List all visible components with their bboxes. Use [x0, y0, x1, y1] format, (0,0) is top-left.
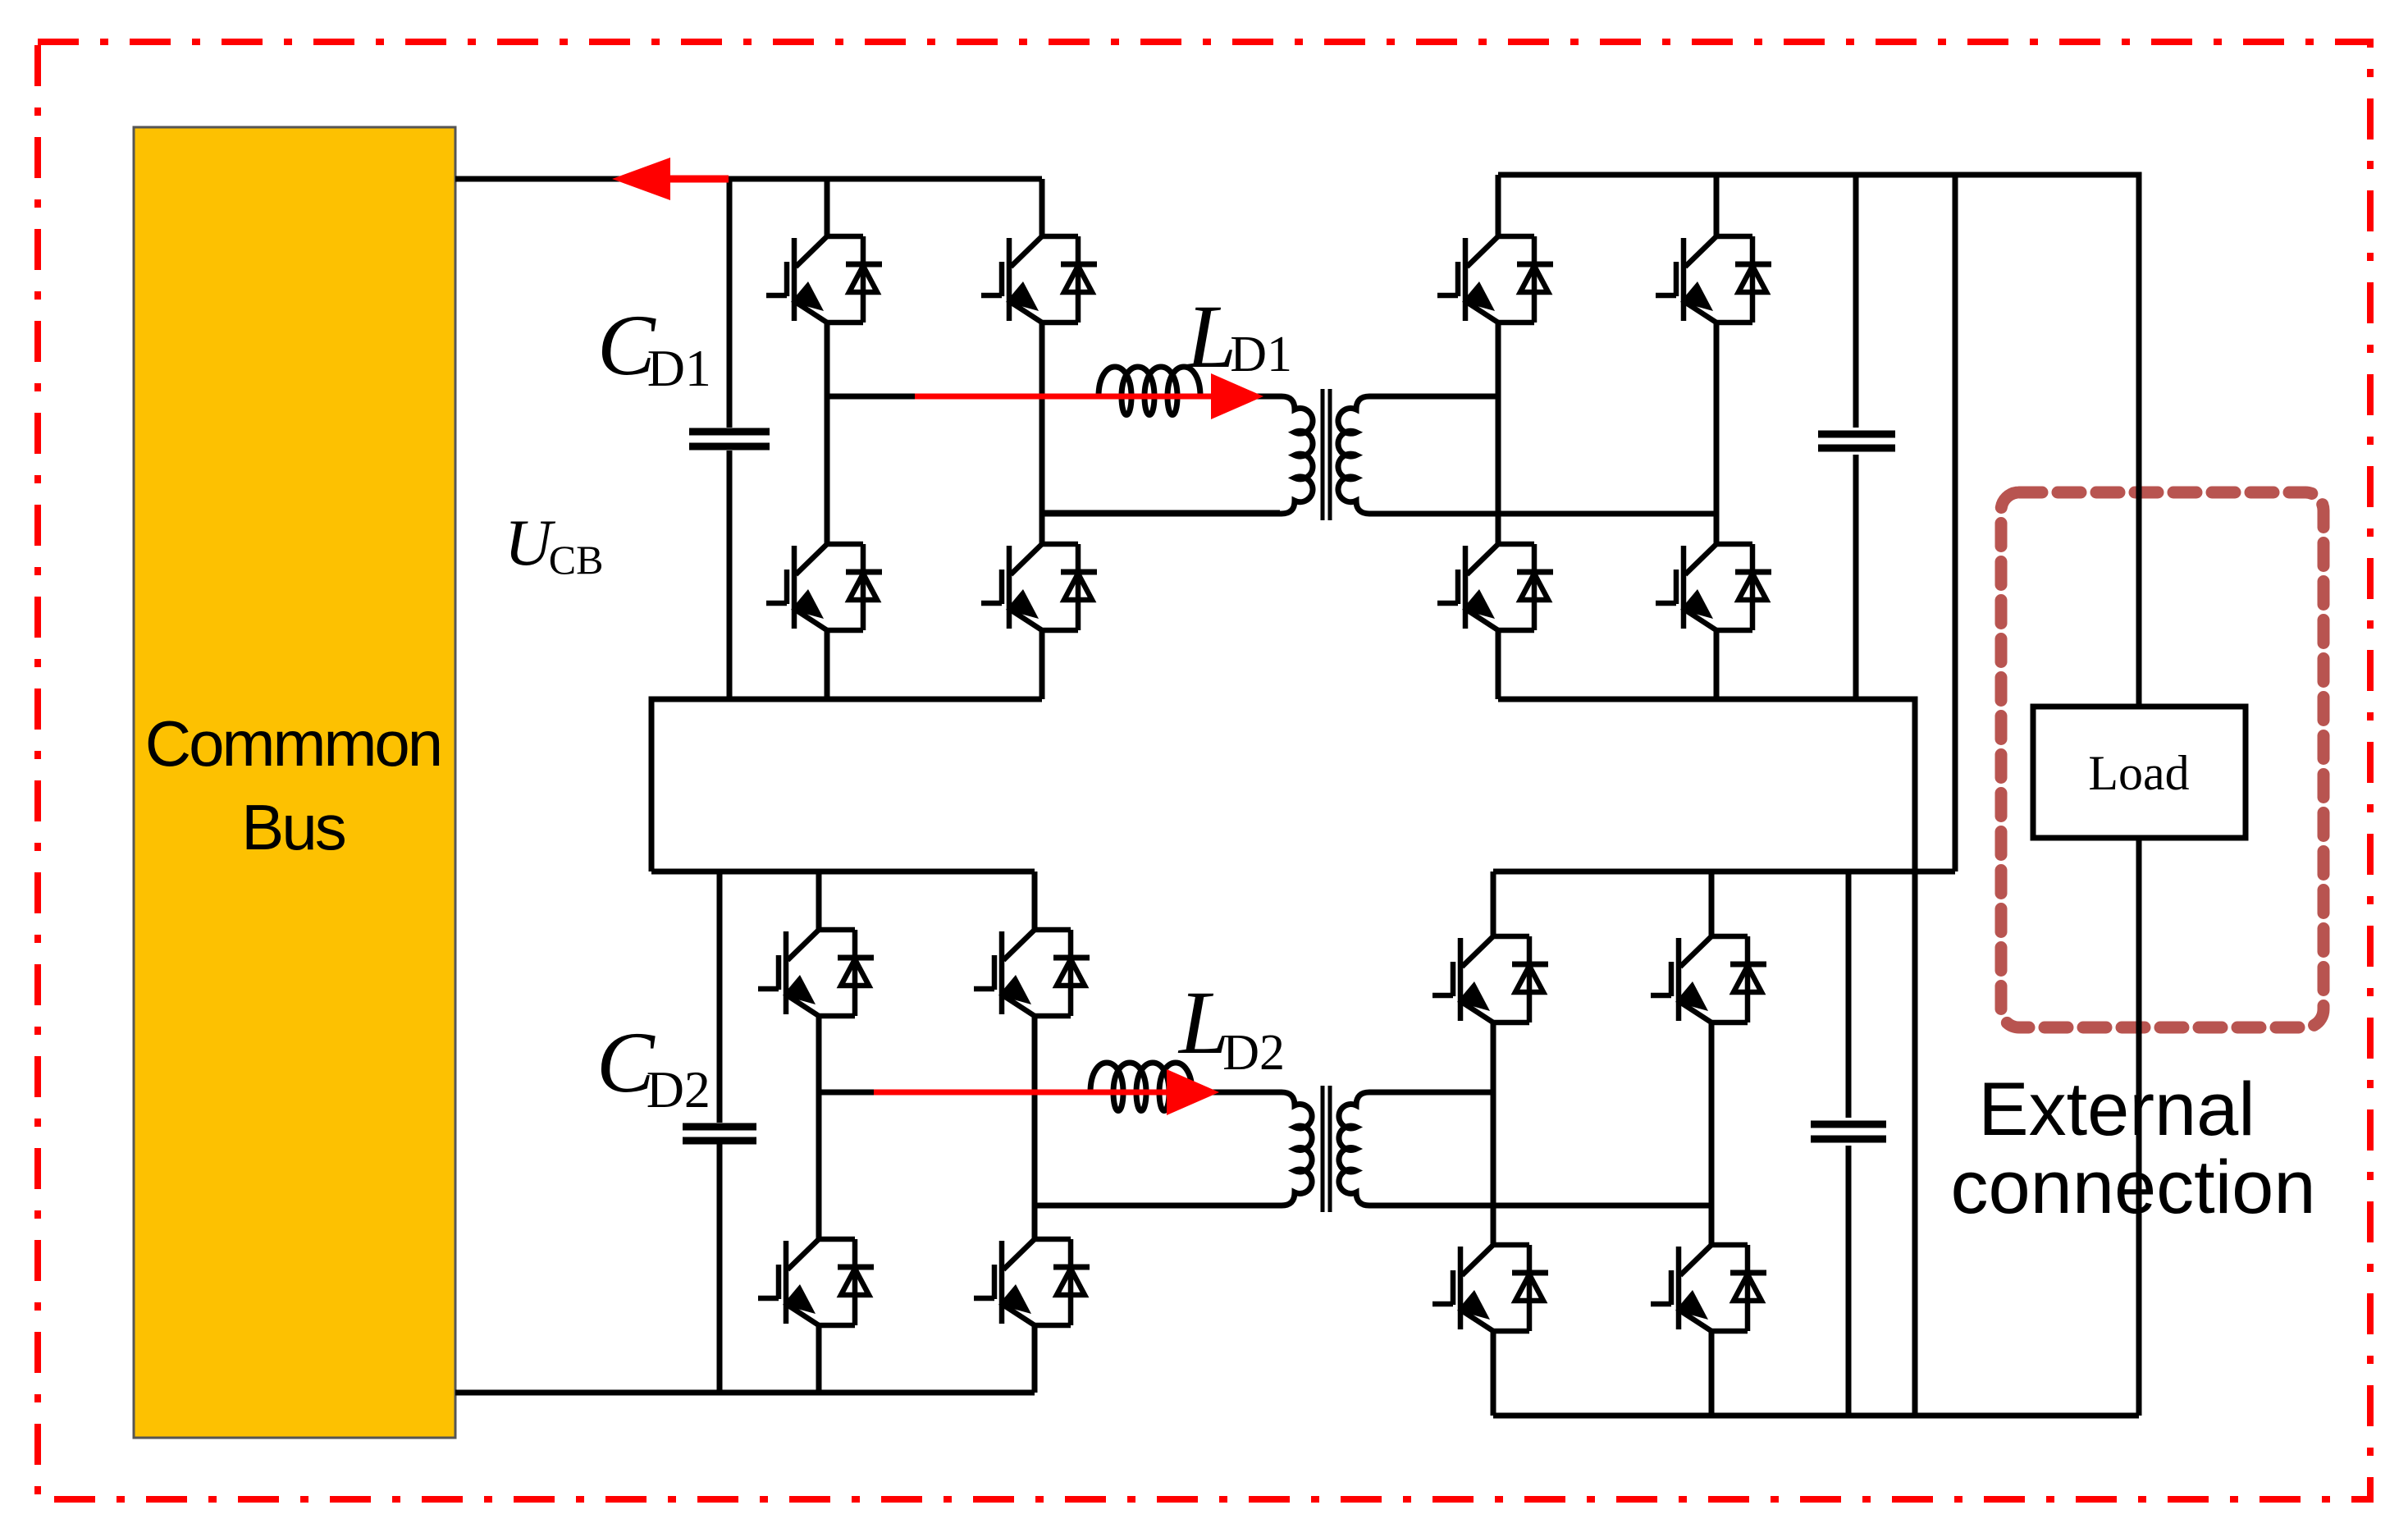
- transformer T2 secondary winding: [1339, 1092, 1711, 1205]
- IGBT S3 with antiparallel diode (DAB1 primary, bottom-left): [766, 544, 882, 630]
- wire: DAB2 primary right midpoint lead: [1035, 1203, 1280, 1209]
- wire: load top lead: [2136, 838, 2142, 1416]
- wire: capacitor CD2 branch: [717, 872, 723, 1393]
- IGBT S12 with antiparallel diode (DAB2 primary, bottom-right): [974, 1239, 1090, 1325]
- red arrow: DAB2 inductor current: [874, 1069, 1219, 1115]
- IGBT S9 with antiparallel diode (DAB2 primary, top-left): [758, 930, 874, 1016]
- wire: DAB1 primary right midpoint lead: [1042, 510, 1280, 516]
- inductor LD1: [1099, 367, 1200, 415]
- svg-text:External: External: [1978, 1068, 2255, 1151]
- Common Bus block: [134, 127, 455, 1438]
- IGBT S16 with antiparallel diode (DAB2 secondary, bottom-right): [1651, 1245, 1766, 1331]
- IGBT S7 with antiparallel diode (DAB1 secondary, bottom-left): [1437, 544, 1553, 630]
- svg-text:Load: Load: [2088, 746, 2189, 800]
- IGBT S2 with antiparallel diode (DAB1 primary, top-right): [981, 236, 1097, 323]
- svg-text:connection: connection: [1951, 1146, 2316, 1229]
- Load block: [2033, 707, 2246, 838]
- External connection dashed box: [2001, 492, 2323, 1027]
- wire: DAB1 primary top rail from Common Bus: [455, 176, 1042, 182]
- transformer T1 core: [1323, 389, 1330, 520]
- transformer T1 primary winding: [1042, 396, 1313, 514]
- capacitor CD1 plates: [689, 432, 770, 446]
- wire: DAB2 output capacitor branch: [1846, 872, 1852, 1416]
- red arrow: DAB1 inductor current: [915, 373, 1263, 419]
- svg-text:Commmon: Commmon: [145, 707, 441, 780]
- IGBT S11 with antiparallel diode (DAB2 primary, bottom-left): [758, 1239, 874, 1325]
- DAB2 output capacitor plates: [1811, 1124, 1886, 1139]
- inductor LD2: [1090, 1063, 1192, 1111]
- wire: DAB2 primary bridge right leg: [1032, 872, 1038, 1393]
- wire: DAB2 primary midpoint to inductor line: [819, 1090, 1222, 1096]
- wire: DAB1 secondary top rail with load drop: [1498, 175, 2139, 707]
- DAB1 output capacitor plates: [1818, 434, 1895, 448]
- wire: DAB2 primary bottom rail to Common Bus: [455, 1390, 1035, 1396]
- capacitor CD2 plates: [683, 1127, 756, 1141]
- IGBT S8 with antiparallel diode (DAB1 secondary, bottom-right): [1656, 544, 1771, 630]
- red arrow: power flow into common bus: [612, 158, 729, 200]
- wire: DAB1 secondary bottom rail and right link vertical down: [1498, 699, 1915, 1416]
- wire: DAB2 secondary top rail: [1493, 869, 1955, 875]
- IGBT S4 with antiparallel diode (DAB1 primary, bottom-right): [981, 544, 1097, 630]
- wire: DAB2 secondary bridge right leg: [1709, 872, 1715, 1416]
- transformer T1 secondary winding: [1338, 396, 1716, 514]
- wire: DAB2 secondary bridge left leg: [1491, 872, 1496, 1416]
- IGBT S1 with antiparallel diode (DAB1 primary, top-left): [766, 236, 882, 323]
- wire: parallel link from DAB1 top rail to DAB2 secondary top rail: [1953, 175, 1958, 872]
- wire: DAB2 secondary bottom rail to load: [1493, 1413, 2139, 1419]
- wire: DAB1 secondary bridge right leg: [1714, 175, 1720, 699]
- IGBT S5 with antiparallel diode (DAB1 secondary, top-left): [1437, 236, 1553, 323]
- svg-text:Bus: Bus: [241, 791, 345, 863]
- IGBT S6 with antiparallel diode (DAB1 secondary, top-right): [1656, 236, 1771, 323]
- transformer T2 core: [1323, 1086, 1330, 1212]
- wire: DAB1 primary midpoint to inductor line: [827, 394, 1268, 400]
- wire: DAB1 secondary bridge left leg: [1496, 175, 1501, 699]
- wire: DAB1 primary bridge left leg: [825, 179, 830, 699]
- wire: DAB2 primary top rail: [651, 869, 1035, 875]
- IGBT S13 with antiparallel diode (DAB2 secondary, top-left): [1432, 936, 1548, 1022]
- wire: capacitor CD1 branch: [727, 179, 733, 699]
- transformer T2 primary winding: [1035, 1092, 1312, 1205]
- IGBT S15 with antiparallel diode (DAB2 secondary, bottom-left): [1432, 1245, 1548, 1331]
- IGBT S10 with antiparallel diode (DAB2 primary, top-right): [974, 930, 1090, 1016]
- wire: DAB1 primary bridge right leg: [1040, 179, 1045, 699]
- wire: DAB1 output capacitor branch: [1853, 175, 1859, 699]
- wire: DAB1 primary bottom rail and left link vertical to DAB2 top rail: [651, 699, 1042, 872]
- wire: DAB2 primary bridge left leg: [816, 872, 822, 1393]
- IGBT S14 with antiparallel diode (DAB2 secondary, top-right): [1651, 936, 1766, 1022]
